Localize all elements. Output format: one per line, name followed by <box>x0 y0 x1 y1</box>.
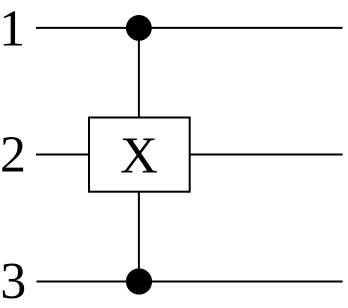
svg-text:3: 3 <box>0 253 26 308</box>
wire 1 <box>36 27 343 29</box>
vertical control line upper segment <box>138 28 140 118</box>
svg-text:1: 1 <box>0 0 25 57</box>
wire 2 left segment <box>36 154 89 156</box>
svg-text:X: X <box>120 127 158 184</box>
svg-text:2: 2 <box>0 126 26 183</box>
wire 3 <box>37 281 343 283</box>
wire 2 right segment <box>190 154 343 156</box>
vertical control line lower segment <box>138 192 140 282</box>
X gate box <box>89 118 190 192</box>
control dot on wire 3 <box>126 268 152 294</box>
control dot on wire 1 <box>126 15 152 41</box>
